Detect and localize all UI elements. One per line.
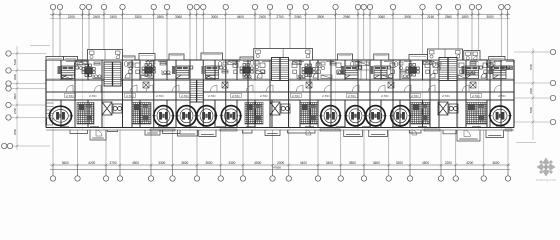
dining sets (top band) xyxy=(82,64,95,77)
svg-text:1800: 1800 xyxy=(461,15,468,19)
svg-text:2000: 2000 xyxy=(277,161,284,165)
svg-text:2.70□: 2.70□ xyxy=(89,94,97,98)
svg-text:zhulong.com: zhulong.com xyxy=(536,178,556,182)
svg-text:3300: 3300 xyxy=(158,161,165,165)
svg-text:2700: 2700 xyxy=(276,15,283,19)
svg-text:4500: 4500 xyxy=(254,161,261,165)
watermark logo xyxy=(537,158,556,177)
duct shaft 358-370 xyxy=(358,60,370,80)
svg-text:2.70□: 2.70□ xyxy=(498,94,506,98)
svg-text:3600: 3600 xyxy=(492,161,499,165)
svg-text:3300: 3300 xyxy=(135,15,142,19)
svg-text:2200: 2200 xyxy=(445,161,452,165)
svg-text:2.70□: 2.70□ xyxy=(381,94,389,98)
svg-text:7060: 7060 xyxy=(529,63,533,70)
svg-text:4400: 4400 xyxy=(237,15,244,19)
svg-text:3900: 3900 xyxy=(404,15,411,19)
svg-text:2.70□: 2.70□ xyxy=(322,94,330,98)
svg-text:4400: 4400 xyxy=(300,161,307,165)
corridor shafts xyxy=(143,82,476,88)
porch door arcs xyxy=(96,130,471,137)
stair core 4 xyxy=(439,58,457,81)
svg-text:3060: 3060 xyxy=(378,15,385,19)
svg-text:3060: 3060 xyxy=(175,15,182,19)
svg-text:3900: 3900 xyxy=(13,73,17,80)
window ticks on outer walls xyxy=(60,61,514,126)
svg-text:3000: 3000 xyxy=(486,15,493,19)
window sills bottom xyxy=(150,129,512,131)
left dim ticks and text xyxy=(16,52,19,147)
room labels xyxy=(66,94,506,98)
bottom dimension lines xyxy=(50,164,510,166)
svg-text:3300: 3300 xyxy=(228,161,235,165)
kitchen counters xyxy=(93,70,476,79)
svg-text:4800: 4800 xyxy=(13,93,17,100)
svg-text:3600: 3600 xyxy=(205,161,212,165)
svg-text:4200: 4200 xyxy=(466,161,473,165)
svg-text:4200: 4200 xyxy=(88,161,95,165)
svg-text:3200: 3200 xyxy=(396,161,403,165)
svg-text:2960: 2960 xyxy=(343,15,350,19)
projecting volumes on top edge xyxy=(46,49,505,61)
svg-text:2.70□: 2.70□ xyxy=(442,94,450,98)
svg-text:3000: 3000 xyxy=(211,15,218,19)
svg-text:3300: 3300 xyxy=(529,87,533,94)
beds (top band) xyxy=(58,66,79,79)
svg-text:2400: 2400 xyxy=(93,15,100,19)
svg-text:3760: 3760 xyxy=(13,107,17,114)
svg-text:2200: 2200 xyxy=(68,15,75,19)
stair core 1 xyxy=(104,62,121,86)
bottom bubble stems xyxy=(53,165,508,176)
wardrobes and closets xyxy=(62,61,513,79)
entrance steps left end xyxy=(46,103,54,125)
top bubble stems xyxy=(53,10,508,19)
interior partitions xyxy=(46,60,514,128)
svg-text:47800: 47800 xyxy=(273,166,281,170)
grid lines xyxy=(53,11,508,177)
elevator/utility 1 xyxy=(102,102,122,115)
svg-text:4500: 4500 xyxy=(422,161,429,165)
svg-text:5400: 5400 xyxy=(529,106,533,113)
elevator/utility 3 xyxy=(438,102,458,115)
svg-text:2600: 2600 xyxy=(157,15,164,19)
balconies / porches on bottom edge xyxy=(70,130,504,141)
svg-text:3600: 3600 xyxy=(181,161,188,165)
top axis bubbles xyxy=(50,4,510,9)
building outer walls xyxy=(46,60,514,128)
svg-text:3900: 3900 xyxy=(317,15,324,19)
stair core 2 xyxy=(190,80,203,102)
svg-text:2.70□: 2.70□ xyxy=(260,94,268,98)
svg-text:2400: 2400 xyxy=(110,15,117,19)
right axis bubbles xyxy=(550,49,555,124)
svg-text:3700: 3700 xyxy=(109,161,116,165)
svg-text:4500: 4500 xyxy=(13,128,17,135)
round elements (bottom band) xyxy=(48,106,73,125)
svg-text:2400: 2400 xyxy=(259,15,266,19)
bath fixtures top band xyxy=(74,61,495,70)
svg-text:3600: 3600 xyxy=(373,161,380,165)
svg-text:5400: 5400 xyxy=(13,58,17,65)
left axis bubbles xyxy=(1,51,12,149)
door swing arcs xyxy=(66,85,501,92)
svg-text:2060: 2060 xyxy=(294,15,301,19)
svg-text:3400: 3400 xyxy=(326,161,333,165)
elevator/utility 2 xyxy=(270,102,290,115)
misc fixtures top band xyxy=(94,62,512,78)
svg-text:2160: 2160 xyxy=(427,15,434,19)
top dimension lines (two tiers) xyxy=(50,14,510,16)
svg-text:3500: 3500 xyxy=(349,161,356,165)
top dimension numbers xyxy=(68,15,494,19)
plaid furniture (bottom band) xyxy=(77,103,94,125)
svg-text:2.70□: 2.70□ xyxy=(156,94,164,98)
svg-text:4500: 4500 xyxy=(132,161,139,165)
svg-text:2560: 2560 xyxy=(445,15,452,19)
svg-text:3600: 3600 xyxy=(62,161,69,165)
stair core 3 xyxy=(272,58,289,81)
svg-text:2.70□: 2.70□ xyxy=(208,94,216,98)
bottom axis bubbles xyxy=(50,176,510,181)
fixtures inside tall projecting volumes xyxy=(90,49,478,61)
